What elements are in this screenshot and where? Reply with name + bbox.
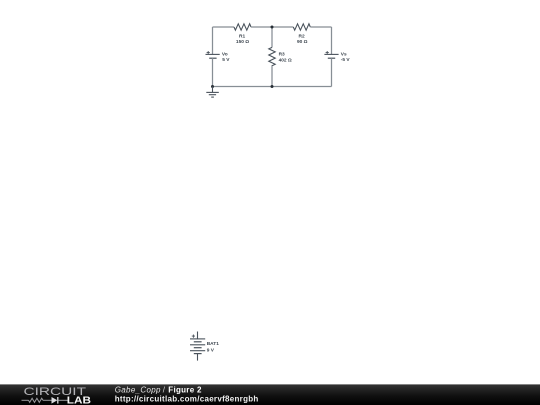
logo CIRCUIT text (24, 386, 87, 398)
label 402 ohm (279, 57, 292, 63)
label R2 (299, 34, 305, 40)
svg-text:90 Ω: 90 Ω (297, 39, 308, 45)
wire right rail upper (331, 27, 333, 54)
label R1 (239, 34, 245, 40)
label 90 ohm (297, 39, 308, 45)
svg-text:R3: R3 (279, 52, 285, 58)
wire bottom (213, 86, 332, 88)
svg-text:9 V: 9 V (207, 347, 215, 353)
wire mid rail lower (271, 66, 273, 86)
svg-text:http://circuitlab.com/caervf8e: http://circuitlab.com/caervf8enrgbh (115, 395, 259, 404)
battery BAT1 (190, 332, 205, 361)
wire right rail lower (331, 58, 333, 86)
label -5 V (341, 57, 351, 63)
svg-text:150 Ω: 150 Ω (236, 39, 249, 45)
svg-text:Vo: Vo (222, 52, 228, 58)
svg-text:5 V: 5 V (222, 57, 230, 63)
wire left rail lower (212, 58, 214, 86)
wire mid rail upper (271, 27, 273, 47)
label 9 V (207, 347, 215, 353)
junction node bottom-middle (271, 85, 274, 88)
svg-text:Vs: Vs (341, 52, 347, 58)
logo circuit glyph: wire (22, 399, 29, 401)
footer bar (0, 384, 540, 405)
label Vo (222, 52, 228, 58)
logo LAB text (67, 396, 91, 405)
footer author text (115, 385, 202, 394)
svg-text:Gabe_Copp: Gabe_Copp (115, 385, 161, 394)
label Vs (341, 52, 347, 58)
wire top-middle segment (251, 26, 293, 28)
voltage source Vo (206, 51, 220, 58)
svg-text:R1: R1 (239, 34, 245, 40)
label R3 (279, 52, 285, 58)
label BAT1 (207, 341, 220, 347)
junction node top-middle (271, 26, 274, 29)
junction node bottom-left (211, 85, 214, 88)
ground (206, 87, 219, 98)
logo circuit glyph: diode (52, 397, 58, 404)
resistor R2 (293, 24, 310, 30)
svg-text:BAT1: BAT1 (207, 341, 220, 347)
wire left rail upper (212, 27, 214, 54)
footer url text (115, 395, 259, 404)
wire top-left segment (213, 26, 235, 28)
logo circuit glyph: wire after diode (58, 399, 67, 401)
label 150 ohm (236, 39, 249, 45)
resistor R3 (269, 47, 275, 66)
resistor R1 (234, 24, 251, 30)
svg-text:Figure 2: Figure 2 (168, 385, 202, 394)
svg-text:R2: R2 (299, 34, 305, 40)
svg-text:LAB: LAB (67, 396, 91, 405)
svg-text:402 Ω: 402 Ω (279, 57, 292, 63)
voltage source Vs (324, 51, 338, 58)
wire top-right segment (310, 26, 331, 28)
label 5 V (222, 57, 230, 63)
svg-text:-5 V: -5 V (341, 57, 351, 63)
logo circuit glyph: wire to diode (43, 399, 52, 401)
logo circuit glyph: resistor zigzag (29, 398, 44, 402)
